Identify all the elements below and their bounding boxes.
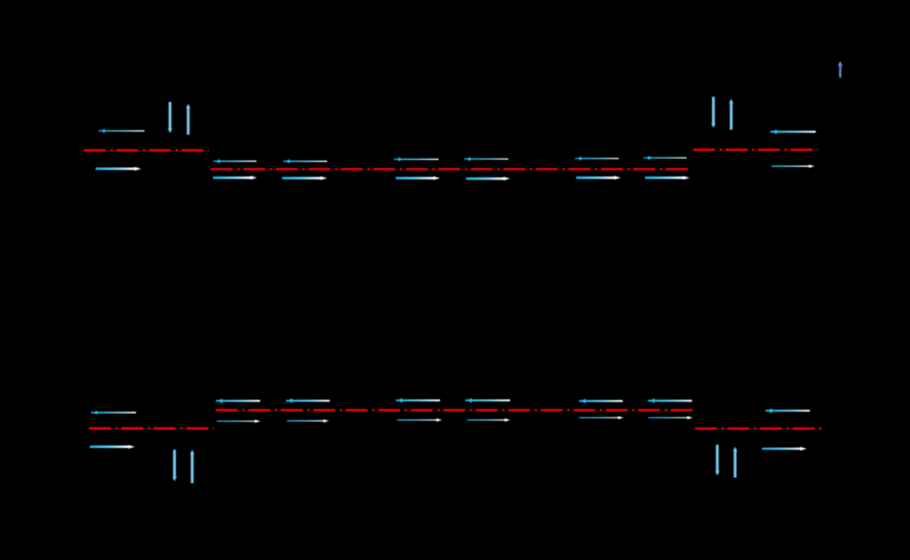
top-right below-sheet arrow (rightward, thin) <box>771 166 810 167</box>
bottom-central below-sheet arrow 6 (rightward, thin) <box>648 417 688 418</box>
purple upward velocity arrow <box>838 61 843 77</box>
bottom-left below-sheet arrow (rightward, thick) <box>90 446 130 449</box>
top-left above-sheet arrow (leftward, thin) <box>99 130 145 131</box>
top-central below-sheet arrow 1 (rightward, thick) <box>213 176 252 179</box>
top-left step: down arrow <box>168 102 172 133</box>
bottom-right sheet segment (red dash-dot) <box>695 427 822 429</box>
top-right above-sheet arrow (leftward, thick) <box>770 131 815 133</box>
bottom-right below-sheet arrow (rightward) <box>762 448 801 450</box>
bottom-left above-sheet arrow (leftward) <box>91 412 136 414</box>
bottom-central above-sheet arrow 5 (leftward, thick) <box>579 400 623 402</box>
bottom-central above-sheet arrow 2 (leftward, thick) <box>286 400 330 402</box>
top-right step: down arrow <box>711 97 715 128</box>
top-right sheet segment (red dash-dot) <box>693 149 818 151</box>
bottom-central below-sheet arrow 2 (rightward, thin) <box>287 420 325 421</box>
bottom-central below-sheet arrow 1 (rightward, thin) <box>217 421 256 422</box>
bottom-right above-sheet arrow (leftward) <box>766 410 810 412</box>
bottom-left step: up arrow <box>190 450 194 483</box>
top-central below-sheet arrow 6 (rightward, thick) <box>645 177 684 180</box>
bottom-central below-sheet arrow 4 (rightward, thin) <box>467 419 506 420</box>
bottom-central below-sheet arrow 3 (rightward, thin) <box>397 419 438 420</box>
bottom-central below-sheet arrow 5 (rightward, thin) <box>579 417 619 418</box>
bottom-central above-sheet arrow 3 (leftward, thick) <box>396 399 440 401</box>
top-central above-sheet arrow 4 (leftward, thin) <box>464 158 508 159</box>
top-central above-sheet arrow 5 (leftward, thin) <box>575 158 619 159</box>
top-central below-sheet arrow 3 (rightward, thick) <box>396 177 435 180</box>
bottom-central displaced sheet segment (red dash-dot) <box>216 409 697 411</box>
top-central below-sheet arrow 4 (rightward, thick) <box>466 177 504 180</box>
bottom-right step: down arrow <box>715 445 719 476</box>
bottom-central above-sheet arrow 6 (leftward, thick) <box>648 400 692 402</box>
bottom-left sheet segment (red dash-dot) <box>89 427 214 429</box>
top-central above-sheet arrow 3 (leftward, thin) <box>394 159 439 160</box>
bottom-central above-sheet arrow 1 (leftward, thick) <box>216 400 260 402</box>
top-central above-sheet arrow 1 (leftward, thin) <box>213 161 256 162</box>
top-left step: up arrow <box>186 104 190 135</box>
bottom-left step: down arrow <box>172 450 176 482</box>
bottom-central above-sheet arrow 4 (leftward, thick) <box>465 399 510 401</box>
top-left sheet segment (red dash-dot) <box>84 149 209 151</box>
top-central above-sheet arrow 2 (leftward, thin) <box>283 161 327 162</box>
top-right step: up arrow <box>729 99 733 130</box>
top-central above-sheet arrow 6 (leftward, thin) <box>644 157 687 158</box>
top-left below-sheet arrow (rightward, thick) <box>96 168 136 171</box>
bottom-right step: up arrow <box>733 447 737 478</box>
top-central below-sheet arrow 5 (rightward, thick) <box>576 176 615 179</box>
top-central below-sheet arrow 2 (rightward, thick) <box>282 177 322 180</box>
top-central displaced sheet segment (red dash-dot) <box>211 168 690 170</box>
